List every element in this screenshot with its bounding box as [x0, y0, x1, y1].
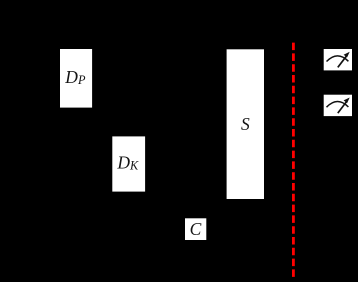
component D_K (box): [112, 136, 145, 191]
label C: [190, 219, 202, 239]
label D_P: [64, 67, 86, 87]
svg-text:C: C: [190, 219, 202, 239]
meter M1: [324, 49, 352, 70]
svg-text:S: S: [241, 114, 250, 134]
meter M2: [324, 95, 352, 116]
boundary: red dashed line: [292, 43, 295, 278]
component S (box): [227, 49, 264, 199]
component C (box): [185, 218, 206, 240]
label S: [241, 114, 250, 134]
label D_K: [116, 152, 139, 172]
component D_P (box): [60, 49, 92, 108]
